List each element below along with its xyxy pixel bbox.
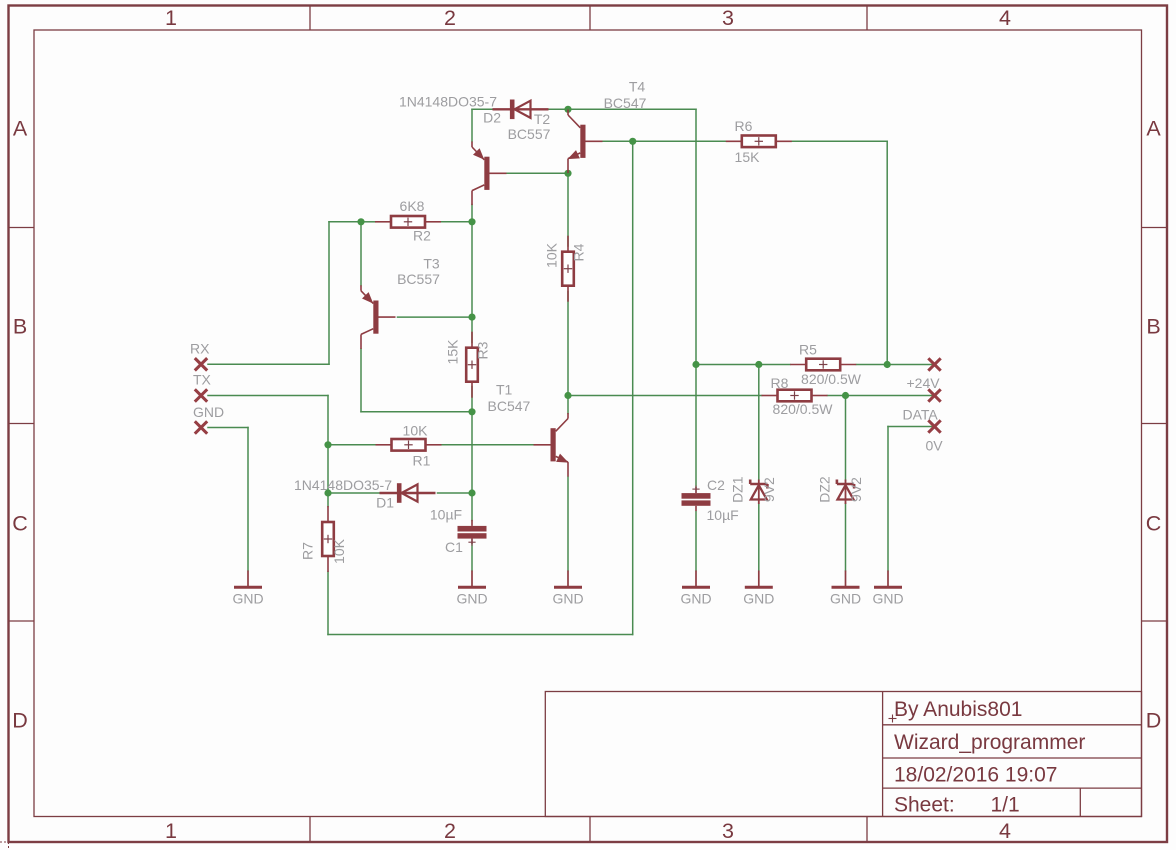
svg-text:4: 4 <box>999 6 1011 30</box>
svg-text:18/02/2016 19:07: 18/02/2016 19:07 <box>894 764 1058 787</box>
ground (C1) <box>471 571 473 587</box>
pin DATA <box>928 389 940 401</box>
svg-text:10K: 10K <box>544 242 560 268</box>
wire +24V row <box>696 141 935 570</box>
wire T1 emitter <box>567 477 569 571</box>
resistor R7 10K <box>327 506 329 522</box>
transistor T4 BC547 <box>580 125 585 158</box>
resistor R6 15K <box>726 140 742 142</box>
wire net base-T3 vertical <box>361 205 472 494</box>
svg-text:BC557: BC557 <box>508 126 551 142</box>
resistor R8 820/0.5W <box>762 395 778 397</box>
svg-text:3: 3 <box>722 6 734 30</box>
svg-text:9V2: 9V2 <box>761 477 777 502</box>
svg-text:TX: TX <box>193 372 212 388</box>
junction (632.7,141.3) <box>629 138 636 145</box>
svg-text:A: A <box>1146 117 1161 141</box>
svg-text:D2: D2 <box>483 110 501 126</box>
svg-text:T4: T4 <box>629 79 646 95</box>
wire 0V <box>888 427 935 571</box>
svg-text:GND: GND <box>193 404 224 420</box>
ground (T1 emitter) <box>567 571 569 587</box>
junction (696,364.5) <box>692 361 699 368</box>
diode D2 1N4148 <box>493 108 549 110</box>
svg-text:GND: GND <box>552 591 583 607</box>
transistor T2 BC557 <box>484 157 489 190</box>
svg-text:1/1: 1/1 <box>991 794 1020 817</box>
wire net RX <box>208 222 375 364</box>
wire R1 to T1 base <box>442 444 534 446</box>
wire net TX <box>208 141 726 634</box>
resistor R5 820/0.5W <box>790 364 806 366</box>
transistor T1 BC547 <box>551 428 556 461</box>
svg-text:BC547: BC547 <box>604 95 647 111</box>
svg-text:By Anubis801: By Anubis801 <box>894 698 1022 721</box>
ground (DZ1) <box>758 571 760 587</box>
svg-text:R6: R6 <box>735 118 753 134</box>
svg-text:1N4148DO35-7: 1N4148DO35-7 <box>294 477 392 493</box>
junction (568,395.5) <box>564 392 571 399</box>
svg-text:3: 3 <box>722 819 734 843</box>
svg-text:R2: R2 <box>413 228 431 244</box>
junction (472,411.8) <box>468 408 475 415</box>
svg-text:GND: GND <box>872 591 903 607</box>
svg-text:1: 1 <box>165 6 177 30</box>
svg-text:10K: 10K <box>331 538 347 564</box>
ground (left pin) <box>247 571 249 587</box>
ground (0V) <box>887 571 889 587</box>
svg-text:R1: R1 <box>413 453 431 469</box>
resistor R2 6K8 <box>375 221 391 223</box>
resistor R4 10K <box>567 236 569 252</box>
svg-text:+24V: +24V <box>907 375 941 391</box>
junction (328,444.8) <box>324 441 331 448</box>
svg-text:R7: R7 <box>300 542 316 560</box>
svg-text:R3: R3 <box>475 341 491 359</box>
wire top row <box>472 109 696 364</box>
pin RX <box>195 358 207 370</box>
svg-text:GND: GND <box>232 591 263 607</box>
svg-text:0V: 0V <box>926 438 944 454</box>
pin 0V <box>928 420 940 432</box>
title block <box>545 692 1141 817</box>
svg-text:10µF: 10µF <box>707 507 739 523</box>
svg-text:C1: C1 <box>445 539 463 555</box>
svg-text:1N4148DO35-7: 1N4148DO35-7 <box>399 94 497 110</box>
pin +24V <box>928 358 940 370</box>
svg-text:R5: R5 <box>799 342 817 358</box>
junction (361,221.8) <box>357 218 364 225</box>
ground (C2) <box>695 571 697 587</box>
svg-text:BC547: BC547 <box>488 398 531 414</box>
junction (568,109.3) <box>564 106 571 113</box>
wire net R4 <box>567 173 569 413</box>
svg-text:9V2: 9V2 <box>848 477 864 502</box>
transistor T3 BC557 <box>373 301 378 334</box>
svg-text:D1: D1 <box>376 495 394 511</box>
svg-text:R4: R4 <box>571 243 587 261</box>
svg-text:GND: GND <box>743 591 774 607</box>
wire D1 row <box>328 493 472 571</box>
wire pin GND <box>208 428 248 571</box>
junction (887.2,364.5) <box>884 361 891 368</box>
svg-text:GND: GND <box>456 591 487 607</box>
svg-text:C: C <box>1146 512 1162 536</box>
ground (DZ2) <box>845 571 847 587</box>
svg-text:C2: C2 <box>707 477 725 493</box>
svg-text:BC557: BC557 <box>397 271 440 287</box>
diode D1 1N4148 <box>380 492 436 494</box>
capacitor C1 10uF <box>458 526 487 532</box>
svg-text:10µF: 10µF <box>430 507 462 523</box>
svg-text:1: 1 <box>165 819 177 843</box>
svg-text:15K: 15K <box>445 339 461 365</box>
junction (328,493) <box>324 489 331 496</box>
svg-text:6K8: 6K8 <box>400 198 425 214</box>
svg-text:15K: 15K <box>735 149 761 165</box>
svg-text:T3: T3 <box>423 256 440 272</box>
svg-text:RX: RX <box>190 341 210 357</box>
wire DATA row <box>568 396 935 571</box>
junction (845.5,395.5) <box>842 392 849 399</box>
junction (758.8,364.5) <box>755 361 762 368</box>
svg-text:GND: GND <box>680 591 711 607</box>
svg-text:Wizard_programmer: Wizard_programmer <box>894 731 1085 754</box>
pin TX <box>195 389 207 401</box>
svg-text:10K: 10K <box>403 423 429 439</box>
svg-text:R8: R8 <box>771 375 789 391</box>
zener DZ2 9V2 <box>845 480 847 505</box>
svg-text:C: C <box>12 512 28 536</box>
svg-text:2: 2 <box>444 6 456 30</box>
junction (568,173.3) <box>564 170 571 177</box>
svg-text:B: B <box>13 315 27 339</box>
svg-text:DZ1: DZ1 <box>730 476 746 503</box>
svg-text:Sheet:: Sheet: <box>894 794 955 817</box>
svg-text:4: 4 <box>999 819 1011 843</box>
svg-text:T2: T2 <box>534 111 551 127</box>
svg-text:D: D <box>12 709 28 733</box>
resistor R1 10K <box>376 444 392 446</box>
svg-text:2: 2 <box>444 819 456 843</box>
svg-text:DZ2: DZ2 <box>817 476 833 503</box>
resistor R3 15K <box>471 332 473 348</box>
zener DZ1 9V2 <box>758 480 760 505</box>
junction (472,221.8) <box>468 218 475 225</box>
pin GND <box>195 421 207 433</box>
svg-text:B: B <box>1146 315 1160 339</box>
svg-text:820/0.5W: 820/0.5W <box>773 401 834 417</box>
svg-text:D: D <box>1146 709 1162 733</box>
junction (472,493) <box>468 489 475 496</box>
svg-text:A: A <box>13 117 28 141</box>
svg-text:T1: T1 <box>496 382 513 398</box>
wire C2 <box>695 365 697 571</box>
svg-text:820/0.5W: 820/0.5W <box>801 371 862 387</box>
svg-text:GND: GND <box>830 591 861 607</box>
svg-text:DATA: DATA <box>903 407 939 423</box>
junction (472,317.1) <box>468 314 475 321</box>
capacitor C2 10uF <box>682 493 711 499</box>
